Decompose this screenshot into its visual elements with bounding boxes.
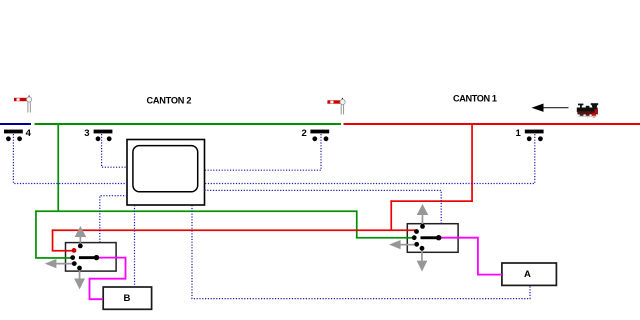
svg-text:3: 3 bbox=[84, 128, 89, 139]
track rail canton 2 (green segment) bbox=[35, 123, 342, 125]
svg-text:CANTON 1: CANTON 1 bbox=[453, 94, 497, 104]
wire: red into relay B bbox=[52, 250, 74, 252]
track contact 1 bbox=[525, 130, 544, 142]
relay A up arrow bbox=[417, 204, 429, 228]
wire: red jog down bbox=[390, 200, 392, 231]
track contact 2 bbox=[310, 130, 329, 142]
dotted link to block B unit bbox=[134, 205, 136, 287]
wire: red jog horizontal bbox=[390, 200, 473, 202]
relay B left arrow bbox=[45, 259, 75, 268]
svg-text:1: 1 bbox=[516, 128, 522, 139]
dotted feedback contact 2 bbox=[205, 134, 322, 170]
wire: magenta relay B output bbox=[90, 258, 126, 300]
dotted feedback contact 1 bbox=[205, 134, 535, 184]
relay B down arrow bbox=[74, 268, 85, 289]
wire: green right branch down bbox=[356, 210, 358, 238]
track rail canton 2 heel (blue segment) bbox=[0, 123, 31, 125]
relay A down arrow bbox=[417, 249, 428, 272]
relay B housing bbox=[66, 243, 117, 272]
relay A left arrow bbox=[389, 240, 417, 249]
wire: red bus horizontal bbox=[52, 229, 416, 231]
svg-text:A: A bbox=[524, 269, 531, 280]
track contact 3 bbox=[94, 130, 113, 142]
track rail canton 1 (red segment) bbox=[344, 123, 640, 125]
svg-text:B: B bbox=[124, 293, 131, 304]
locomotive icon bbox=[577, 103, 598, 117]
central unit (TV screen icon) bbox=[127, 140, 205, 206]
wire: green bus horizontal bbox=[35, 210, 357, 212]
dotted link to relay B coil bbox=[100, 196, 127, 243]
wire: red into relay B down bbox=[52, 229, 54, 251]
wire: green rail drop (canton 2) bbox=[57, 124, 59, 211]
semaphore signal S1 (right) bbox=[327, 97, 345, 114]
track contact 4 bbox=[4, 130, 23, 142]
dotted link to block A unit bbox=[192, 205, 530, 298]
dotted feedback contact 4 bbox=[13, 134, 127, 184]
wire: green into relay A bbox=[356, 237, 415, 239]
relay A contacts and lever bbox=[412, 224, 442, 251]
wire: magenta relay A output bbox=[439, 238, 502, 275]
svg-text:4: 4 bbox=[26, 128, 32, 139]
wire: green left branch down bbox=[35, 210, 37, 258]
relay A housing bbox=[407, 224, 458, 253]
block unit B box bbox=[103, 287, 151, 309]
relay B contacts and lever bbox=[70, 244, 99, 271]
dotted feedback contact 3 bbox=[102, 134, 127, 167]
direction arrow (left-pointing) bbox=[532, 104, 569, 112]
dotted link to relay A coil bbox=[205, 190, 442, 223]
relay B up arrow bbox=[75, 226, 87, 246]
wire: green into relay B bbox=[35, 257, 73, 259]
svg-text:CANTON 2: CANTON 2 bbox=[147, 96, 192, 106]
wire: red rail drop (canton 1) bbox=[471, 124, 473, 201]
semaphore signal S2 (left) bbox=[14, 95, 32, 113]
block unit A box bbox=[502, 263, 557, 285]
svg-text:2: 2 bbox=[302, 128, 307, 139]
